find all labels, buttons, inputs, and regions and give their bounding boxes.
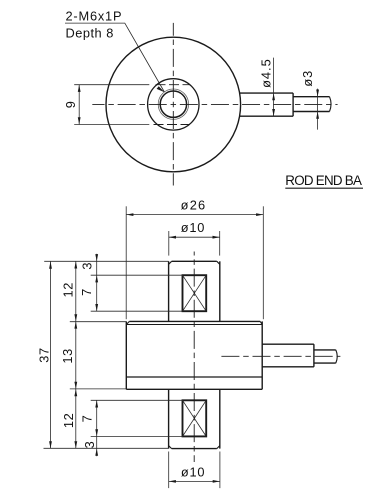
top stud right edge	[219, 261, 221, 321]
body left edge	[125, 321, 127, 389]
left extension line bottom box bottom	[91, 435, 183, 437]
thread major thin circle	[158, 89, 188, 119]
dim ø26 extension lines	[125, 206, 127, 319]
svg-text:3: 3	[79, 263, 94, 270]
dim 3-7 top dimension line	[96, 254, 98, 311]
dim 37 dimension line	[50, 261, 52, 448]
body outer circle ø26	[106, 37, 241, 172]
dim 12-13-12 dimension line	[75, 261, 77, 448]
svg-text:3: 3	[82, 441, 97, 448]
body step line	[126, 376, 262, 378]
left extension line box top	[91, 274, 183, 276]
body top chamfer left	[126, 321, 129, 324]
dim 9 dimension line	[78, 85, 80, 125]
dim 9 extension line upper	[74, 84, 149, 86]
bottom thread box	[183, 400, 207, 436]
horizontal centerline	[92, 103, 337, 105]
dim ø10 bottom extension lines	[168, 452, 170, 489]
top thread box	[183, 275, 207, 311]
bottom stud right edge	[219, 389, 221, 448]
svg-text:37: 37	[37, 347, 52, 362]
shaft end break arc	[330, 97, 332, 112]
stud boss circle ø10	[148, 79, 199, 130]
svg-text:ø3: ø3	[300, 70, 315, 87]
bottom view horizontal centerline	[221, 355, 340, 357]
top stud left edge	[168, 261, 170, 321]
side shaft end break arc	[336, 350, 337, 363]
body bottom face	[126, 388, 262, 390]
svg-text:12: 12	[61, 413, 76, 428]
shaft ø3 outline	[293, 96, 329, 98]
vertical centerline	[172, 23, 174, 186]
bottom stud left edge	[168, 389, 170, 448]
dim ø10 bottom dimension line	[169, 480, 220, 482]
bottom view vertical centerline	[193, 252, 195, 463]
svg-text:ø10: ø10	[181, 220, 205, 235]
svg-text:7: 7	[79, 415, 94, 422]
hidden chord lower	[154, 124, 191, 126]
left extension line stud top	[44, 260, 168, 262]
body right edge	[261, 321, 263, 389]
left extension line stud bottom	[44, 447, 169, 449]
dim ø10 top dimension line	[169, 236, 220, 238]
svg-text:ø26: ø26	[181, 198, 207, 213]
body chamfer line	[126, 324, 262, 326]
dim ø3 dimension line	[317, 89, 319, 130]
svg-text:7: 7	[79, 289, 94, 296]
left extension line body top	[70, 321, 127, 323]
svg-text:Depth 8: Depth 8	[66, 26, 114, 41]
bottom stud bottom face	[172, 448, 217, 450]
body top face	[129, 320, 260, 322]
top thread box diagonals	[183, 275, 207, 311]
body top chamfer right	[260, 321, 262, 324]
svg-text:ROD END BA: ROD END BA	[285, 173, 362, 188]
dim 7-3 bottom dimension line	[96, 400, 98, 456]
svg-text:ø4.5: ø4.5	[259, 58, 274, 88]
top stud top face	[172, 260, 217, 262]
hidden chord upper	[156, 84, 191, 86]
dim 9 extension line lower	[74, 124, 149, 126]
svg-text:9: 9	[63, 101, 78, 108]
bottom stud chamfer left	[169, 446, 172, 449]
thread minor circle	[160, 91, 186, 117]
side shaft ø3 outline	[314, 349, 336, 351]
leader for thread note	[65, 23, 164, 92]
svg-text:12: 12	[61, 282, 76, 297]
svg-text:2-M6x1P: 2-M6x1P	[66, 8, 123, 23]
title underline	[285, 187, 363, 189]
dim ø26 dimension line	[126, 214, 263, 216]
svg-text:ø10: ø10	[181, 465, 205, 480]
top stud chamfer left	[169, 261, 172, 264]
bottom thread box diagonals	[183, 400, 207, 436]
left extension line body bottom	[70, 388, 127, 390]
dim ø10 top extension lines	[168, 231, 170, 256]
bottom stud chamfer right	[217, 446, 220, 449]
svg-text:13: 13	[60, 348, 75, 363]
left extension line bottom box top	[91, 399, 183, 401]
dim ø4.5 dimension line	[273, 58, 275, 117]
top stud chamfer right	[217, 261, 220, 264]
side shaft ø4.5 outline	[262, 343, 314, 345]
shaft ø4.5 outline	[240, 92, 293, 94]
left extension line box bottom	[91, 310, 183, 312]
